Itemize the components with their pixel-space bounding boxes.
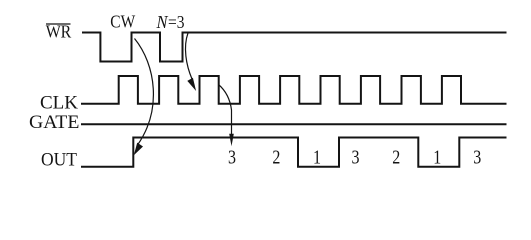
svg-text:WR: WR [46,22,72,42]
svg-text:1: 1 [433,147,441,169]
label WR overline [46,23,71,25]
svg-text:1: 1 [313,147,321,169]
arrow from CLK falling edge down to count 3 (shaft) [219,85,232,136]
svg-text:CLK: CLK [40,93,78,114]
svg-text:2: 2 [392,147,400,169]
arrow from CW pulse to OUT rising edge (shaft) [135,39,154,146]
svg-text:=3: =3 [168,12,185,32]
svg-text:3: 3 [473,147,481,169]
arrow from N=3 pulse to CLK edge (shaft) [185,33,192,79]
svg-text:GATE: GATE [29,112,79,133]
wire WR waveform (two low CW-write pulses) [82,33,507,62]
arrowhead pointing down at count 3 [229,134,234,147]
wire CLK waveform (9 clock pulses) [81,76,507,104]
wire OUT waveform [81,138,507,167]
arrowhead at CLK edge [187,78,196,91]
svg-text:CW: CW [110,12,135,32]
svg-text:2: 2 [272,147,280,169]
svg-text:3: 3 [352,147,360,169]
svg-text:N: N [156,12,169,32]
svg-text:3: 3 [228,147,236,169]
arrowhead at OUT rising edge [134,143,143,156]
svg-text:OUT: OUT [41,150,77,171]
wire GATE line (constant high) [81,123,507,125]
